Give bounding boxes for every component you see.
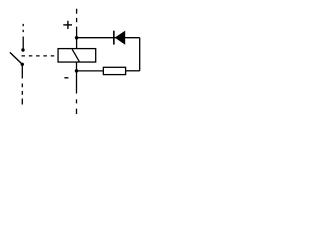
switch S1 fixed contact (dot) (21, 48, 24, 51)
node A (junction dot, top of relay coil) (75, 36, 79, 40)
wire: node B down (solid return) (76, 71, 78, 94)
node B (junction dot, bottom of relay coil) (75, 69, 79, 73)
resistor R1 (103, 67, 125, 74)
wire: positive supply dashed lead-in (top center) (76, 9, 78, 22)
switch S1 blade (10, 52, 22, 64)
wire: node B to resistor (77, 70, 104, 72)
switch S1 pole contact (dot) (21, 63, 24, 66)
wire: right vertical of snubber loop (139, 38, 141, 71)
wire: node A down to relay coil (76, 38, 78, 49)
label - (negative terminal) (64, 77, 68, 79)
wire: switch feed dashed lead-in (top left) (22, 24, 24, 32)
wire: negative return dashed lead-out (76, 99, 78, 114)
wire: node A to diode (top horizontal) (77, 37, 140, 39)
wire: switch feed solid (22, 37, 24, 50)
wire: resistor to right corner (bottom horizontal) (126, 70, 140, 72)
relay coil diagonal mark (72, 49, 79, 61)
wire: switch pole dashed lead-out (21, 84, 23, 105)
diode D1 (flyback, cathode bar left) (114, 31, 125, 45)
wire: switch pole down (solid) (21, 64, 23, 78)
label + (positive terminal) (63, 21, 72, 29)
wire: relay coil bottom to node B (76, 62, 78, 71)
relay coil K1 (rectangle) (58, 49, 96, 62)
mechanical linkage (dashed, switch to relay) (22, 55, 55, 57)
wire: supply down to node A (76, 27, 78, 38)
